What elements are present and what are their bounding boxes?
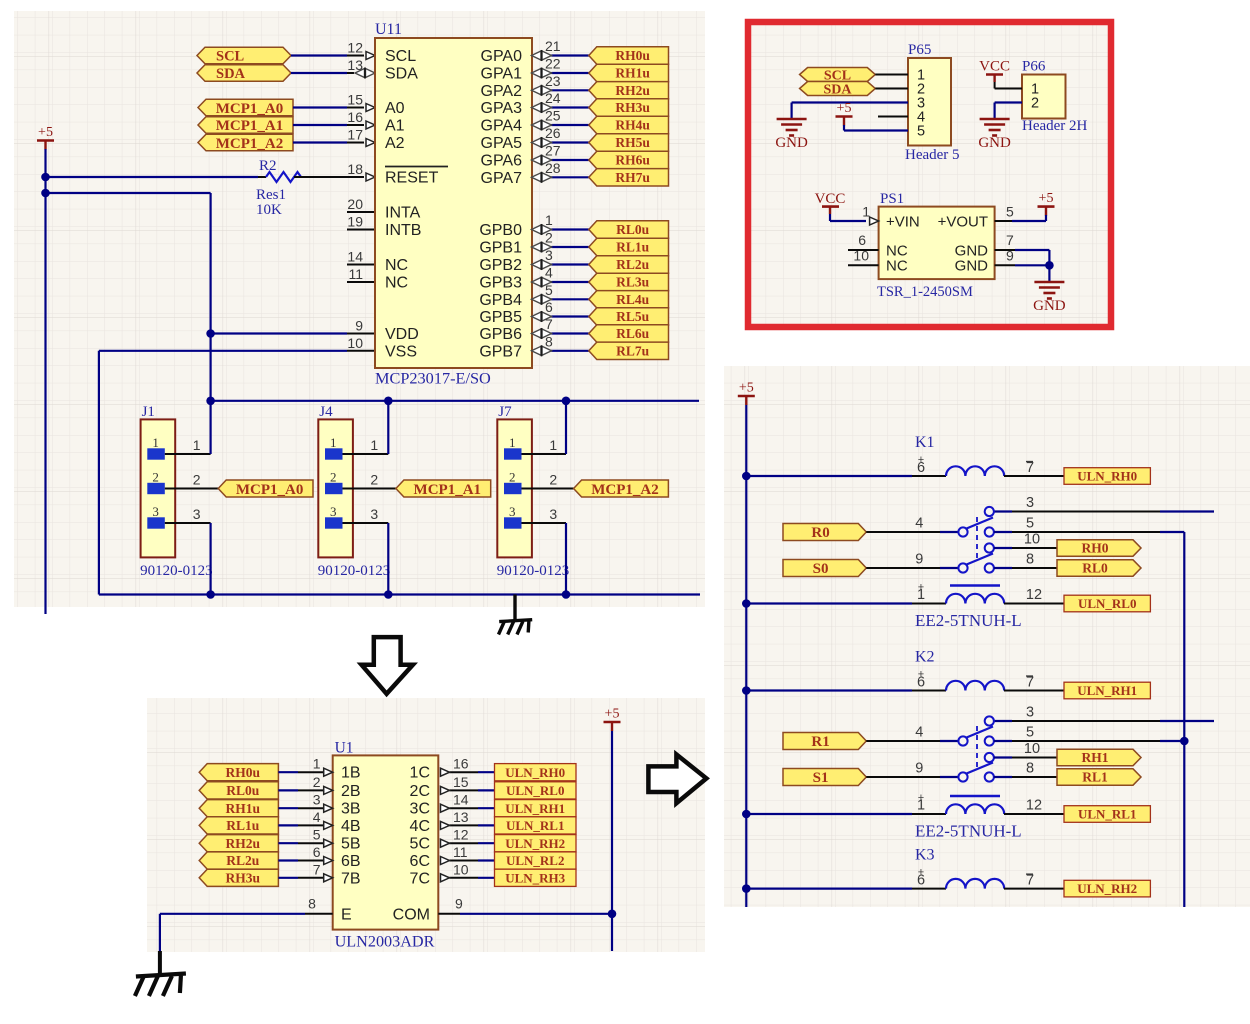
svg-text:INTA: INTA	[385, 205, 421, 222]
wire PS1 GND pin9	[995, 264, 1015, 266]
wire J7 pin1 to +5 rail	[522, 453, 567, 455]
port MCP1_A0	[198, 99, 293, 116]
wire +5 relay rail vertical	[745, 405, 747, 907]
svg-text:GPB1: GPB1	[479, 240, 522, 257]
svg-text:3B: 3B	[341, 801, 361, 818]
svg-text:ULN_RL2: ULN_RL2	[506, 853, 565, 868]
svg-text:NC: NC	[385, 275, 408, 292]
svg-text:R1: R1	[811, 734, 829, 750]
svg-text:27: 27	[545, 143, 561, 159]
wire S1 to K2 pin9	[866, 776, 940, 778]
port MCP1_A0	[218, 480, 313, 497]
svg-text:1: 1	[152, 435, 159, 450]
contact circle K2 pin8	[985, 772, 994, 781]
svg-text:ULN_RH0: ULN_RH0	[1077, 469, 1137, 484]
svg-text:13: 13	[453, 809, 469, 825]
port RH0u (U1 input)	[199, 764, 278, 781]
svg-text:GPB2: GPB2	[479, 257, 522, 274]
wire U1 COM pin9 to +5	[438, 913, 460, 915]
svg-text:2: 2	[370, 472, 378, 488]
svg-text:ULN_RH1: ULN_RH1	[1077, 683, 1137, 698]
svg-text:8: 8	[545, 333, 553, 349]
svg-text:10: 10	[1024, 532, 1040, 548]
svg-text:GPA6: GPA6	[481, 153, 523, 170]
svg-text:11: 11	[348, 266, 363, 282]
junction +5 rail K3 coil	[742, 884, 751, 893]
svg-text:RH2u: RH2u	[615, 83, 650, 98]
wire U1 pin 15 to port ULN_RL0	[450, 789, 479, 791]
svg-text:RH1: RH1	[1082, 750, 1109, 765]
port RL0	[1057, 560, 1141, 576]
pin stub NC pin 14	[347, 264, 375, 266]
svg-text:3: 3	[549, 506, 557, 522]
svg-text:12: 12	[1026, 798, 1042, 814]
svg-text:4C: 4C	[410, 818, 430, 835]
port SCL	[197, 47, 291, 64]
wire R0 to K1 pin4	[866, 531, 940, 533]
switch blade K2 lower	[967, 763, 994, 774]
svg-text:RH0u: RH0u	[615, 48, 650, 63]
svg-text:P66: P66	[1022, 59, 1046, 75]
junction J1 pin3 rail	[206, 590, 215, 599]
svg-text:16: 16	[347, 109, 363, 125]
svg-text:GPB4: GPB4	[479, 292, 522, 309]
wire VDD branch horizontal y=193	[46, 192, 211, 194]
svg-text:GND: GND	[1033, 298, 1066, 314]
wire K1 pin3	[994, 510, 1012, 512]
wire +5 to K1 coil pin1	[746, 602, 912, 604]
port RL4u	[589, 291, 669, 308]
svg-text:RH6u: RH6u	[615, 153, 650, 168]
svg-text:+: +	[918, 792, 924, 804]
port ULN_RH2	[1064, 880, 1150, 897]
pin arrow RESET pin 18	[366, 173, 375, 181]
svg-text:4: 4	[313, 809, 321, 825]
svg-text:RL1: RL1	[1082, 770, 1108, 785]
contact circle K2 pin9	[958, 772, 967, 781]
contact circle K1 pin10	[985, 543, 994, 552]
svg-text:18: 18	[347, 161, 363, 177]
svg-text:12: 12	[1026, 587, 1042, 603]
svg-text:9: 9	[915, 761, 923, 777]
pin stub NC pin 11	[347, 281, 375, 283]
port R1	[783, 733, 866, 750]
svg-text:R2: R2	[259, 158, 277, 174]
wire right bus vertical x=1184.3	[1183, 532, 1185, 907]
svg-text:MCP23017-E/SO: MCP23017-E/SO	[375, 369, 491, 388]
svg-text:GPA7: GPA7	[481, 170, 523, 187]
wire J7 pin3 to ground rail	[522, 522, 567, 524]
wire SCL to P65 pin1	[875, 74, 908, 76]
wire +5 to K1 coil pin6	[746, 475, 912, 477]
svg-text:SCL: SCL	[216, 49, 245, 65]
svg-text:ULN_RL1: ULN_RL1	[506, 818, 565, 833]
svg-text:9: 9	[1006, 248, 1014, 264]
port ULN_RL1	[1064, 806, 1150, 823]
svg-text:5: 5	[313, 827, 321, 843]
svg-text:SDA: SDA	[216, 66, 246, 82]
svg-text:8: 8	[1026, 761, 1034, 777]
svg-text:+5: +5	[1039, 191, 1054, 206]
wire VSS pin 10 to ground rail	[347, 350, 375, 352]
svg-text:15: 15	[347, 92, 363, 108]
svg-text:1: 1	[193, 437, 201, 453]
svg-text:11: 11	[453, 844, 468, 860]
wire K2 pin5 to right bus	[994, 740, 1012, 742]
svg-text:ULN_RH2: ULN_RH2	[505, 836, 565, 851]
wire GND vertical (PS1)	[1048, 250, 1050, 281]
wire GPA6 pin 27 to port RH6u	[532, 159, 552, 161]
svg-text:+: +	[918, 669, 924, 681]
wire SDA to U11 pin 13	[291, 72, 347, 74]
svg-text:RH0: RH0	[1082, 541, 1109, 556]
wire K2 pin3	[994, 720, 1012, 722]
svg-text:SDA: SDA	[823, 82, 852, 97]
svg-text:14: 14	[453, 792, 469, 808]
wire GPA3 pin 24 to port RH3u	[532, 107, 552, 109]
svg-text:7: 7	[313, 861, 321, 877]
svg-text:3: 3	[152, 504, 159, 519]
svg-text:7: 7	[1026, 873, 1034, 889]
svg-text:13: 13	[347, 57, 363, 73]
wire RH2u to U1 pin 5	[278, 842, 298, 844]
relay K1 coil pins 6-7	[946, 466, 1004, 476]
ground GND (P65)	[777, 118, 807, 121]
IC U1 ULN2003ADR body	[333, 755, 439, 929]
svg-text:7: 7	[1026, 675, 1034, 691]
connector J1 90120-0123	[141, 419, 176, 557]
svg-text:U1: U1	[335, 740, 354, 757]
port ULN_RL0	[1064, 595, 1150, 612]
svg-text:ULN2003ADR: ULN2003ADR	[335, 933, 435, 951]
red highlight box border	[748, 22, 1111, 327]
svg-text:1C: 1C	[410, 765, 430, 782]
contact circle K1 pin5	[985, 527, 994, 536]
svg-text:Header 2H: Header 2H	[1022, 118, 1088, 134]
junction left rail / VDD branch	[41, 189, 50, 198]
wire +5 to K2 coil pin1	[746, 813, 912, 815]
svg-text:+: +	[918, 454, 924, 466]
junction VDD	[206, 329, 215, 338]
svg-text:GND: GND	[978, 135, 1011, 151]
svg-text:SCL: SCL	[385, 48, 416, 65]
connector P65 Header 5	[908, 58, 951, 146]
svg-text:RL0u: RL0u	[226, 783, 260, 798]
wire GPB6 pin 7 to port RL6u	[532, 333, 552, 335]
wire GPB1 pin 2 to port RL1u	[532, 246, 552, 248]
wire U1 pin 12 to port ULN_RH2	[450, 842, 479, 844]
svg-text:+VIN: +VIN	[886, 214, 920, 231]
svg-text:+5: +5	[837, 101, 852, 116]
svg-text:1: 1	[370, 437, 378, 453]
svg-text:90120-0123: 90120-0123	[318, 563, 391, 579]
junction +5 rail K1 coil	[742, 472, 751, 481]
switch blade K2 upper	[967, 727, 994, 738]
wire VDD pin 9 to +5 rail	[347, 333, 375, 335]
svg-text:A0: A0	[385, 100, 405, 117]
wire ground bottom rail y=594.5	[99, 593, 700, 595]
svg-text:9: 9	[355, 318, 363, 334]
wire MCP1_A2 to U11 pin 17	[293, 141, 347, 143]
switch blade K1 lower	[967, 554, 994, 565]
svg-text:3: 3	[509, 504, 516, 519]
port MCP1_A1	[198, 117, 293, 134]
red highlight box snippet background	[748, 22, 1111, 327]
svg-text:10: 10	[453, 861, 469, 877]
port RL6u	[589, 325, 669, 342]
port RL7u	[589, 342, 669, 359]
svg-text:GPB5: GPB5	[479, 309, 522, 326]
port ULN_RH1	[495, 800, 577, 817]
svg-text:15: 15	[453, 774, 469, 790]
port RH0	[1057, 540, 1141, 556]
svg-text:10: 10	[853, 248, 869, 264]
wire vertical left rail x=45 down	[44, 177, 46, 614]
port RH5u	[589, 134, 669, 151]
svg-text:GPA4: GPA4	[481, 118, 523, 135]
svg-text:MCP1_A2: MCP1_A2	[216, 136, 284, 152]
ground symbol below J7 rail	[513, 595, 516, 621]
wire K1 pin10 to RH0	[994, 547, 1012, 549]
svg-text:6B: 6B	[341, 853, 361, 870]
svg-text:VCC: VCC	[979, 59, 1010, 75]
svg-text:RL1u: RL1u	[616, 240, 650, 255]
port RL1u	[589, 238, 669, 255]
wire RL2u to U1 pin 6	[278, 859, 298, 861]
port RL0u (U1 input)	[199, 782, 278, 799]
wire R2 to U11 RESET pin 18	[347, 176, 364, 178]
svg-text:GPA1: GPA1	[481, 66, 523, 83]
svg-text:6C: 6C	[410, 853, 430, 870]
svg-text:A2: A2	[385, 135, 405, 152]
svg-text:+5: +5	[739, 381, 754, 396]
svg-text:4: 4	[915, 516, 923, 532]
svg-text:MCP1_A2: MCP1_A2	[591, 482, 659, 498]
port R0	[783, 524, 866, 541]
switch blade K1 upper	[967, 518, 994, 529]
svg-text:A1: A1	[385, 118, 405, 135]
svg-text:MCP1_A1: MCP1_A1	[216, 118, 284, 134]
svg-text:21: 21	[545, 38, 561, 54]
connector J7 90120-0123	[497, 419, 532, 557]
port RH6u	[589, 151, 669, 168]
wire R1 to K2 pin4	[866, 740, 940, 742]
wire U1 E pin8 to ground	[305, 913, 333, 915]
ground GND (P66)	[980, 118, 1010, 121]
svg-text:5: 5	[1006, 204, 1014, 220]
port MCP1_A1	[396, 480, 491, 497]
schematic snippet background top-left	[14, 11, 705, 607]
svg-text:MCP1_A0: MCP1_A0	[236, 482, 304, 498]
wire S0 to K1 pin9	[866, 567, 940, 569]
svg-text:RL0: RL0	[1082, 561, 1108, 576]
resistor R2	[258, 176, 266, 178]
svg-text:3: 3	[370, 506, 378, 522]
port RL1	[1057, 769, 1141, 785]
svg-text:14: 14	[347, 249, 363, 265]
junction right bus K2 pin5	[1180, 737, 1189, 746]
port ULN_RH2	[495, 835, 577, 852]
junction COM/+5	[608, 910, 617, 919]
port RH2u (U1 input)	[199, 835, 278, 852]
svg-text:Header 5: Header 5	[905, 147, 960, 163]
wire GPB5 pin 6 to port RL5u	[532, 316, 552, 318]
svg-text:ULN_RH2: ULN_RH2	[1077, 881, 1137, 896]
svg-text:3: 3	[193, 506, 201, 522]
svg-text:GPB7: GPB7	[479, 343, 522, 360]
port SDA	[197, 65, 291, 82]
svg-text:12: 12	[453, 827, 469, 843]
svg-text:5: 5	[545, 282, 553, 298]
IC U11 MCP23017-E/SO body	[375, 38, 532, 368]
pin stub P65 pin4	[878, 116, 908, 118]
svg-text:RL0u: RL0u	[616, 222, 650, 237]
svg-text:ULN_RL0: ULN_RL0	[506, 783, 565, 798]
svg-text:J4: J4	[319, 404, 333, 420]
svg-text:6: 6	[313, 844, 321, 860]
connector J4 90120-0123	[318, 419, 353, 557]
svg-text:10: 10	[347, 335, 363, 351]
wire U1 pin 14 to port ULN_RH1	[450, 807, 479, 809]
wire VCC to P66 pin1	[994, 82, 996, 89]
svg-text:INTB: INTB	[385, 222, 421, 239]
junction +5 rail K2 coil	[742, 686, 751, 695]
svg-text:MCP1_A1: MCP1_A1	[414, 482, 482, 498]
pin stub PS1 pin10	[848, 264, 879, 266]
port MCP1_A2	[574, 480, 669, 497]
wire RL0u to U1 pin 2	[278, 789, 298, 791]
svg-text:28: 28	[545, 160, 561, 176]
svg-text:1: 1	[509, 435, 516, 450]
svg-text:SDA: SDA	[385, 66, 418, 83]
wire J7 pin2 to port MCP1_A2	[522, 488, 575, 490]
junction +5/RESET	[41, 173, 50, 182]
wire GPA4 pin 25 to port RH4u	[532, 124, 552, 126]
port RL3u	[589, 273, 669, 290]
port ULN_RH1	[1064, 682, 1150, 699]
svg-text:2: 2	[545, 230, 553, 246]
svg-text:5: 5	[917, 124, 925, 140]
wire RH3u to U1 pin 7	[278, 877, 298, 879]
junction J1 pin1 rail	[206, 397, 215, 406]
wire VCC to PS1 +VIN pin1	[829, 214, 831, 221]
svg-text:ULN_RH0: ULN_RH0	[505, 765, 565, 780]
svg-text:4B: 4B	[341, 818, 361, 835]
port RH1u (U1 input)	[199, 800, 278, 817]
svg-text:GPA5: GPA5	[481, 135, 523, 152]
wire J4 pin3 to ground rail	[343, 522, 389, 524]
svg-text:2B: 2B	[341, 783, 361, 800]
svg-text:EE2-5TNUH-L: EE2-5TNUH-L	[915, 611, 1022, 630]
wire GPB7 pin 8 to port RL7u	[532, 350, 552, 352]
ground rake (U1)	[158, 951, 162, 974]
svg-text:+: +	[918, 582, 924, 594]
wire J1 pin2 to port MCP1_A0	[165, 488, 219, 490]
svg-text:TSR_1-2450SM: TSR_1-2450SM	[877, 284, 973, 300]
junction +5 rail K2 coil2	[742, 810, 751, 819]
wire VDD branch vertical x=210.6	[210, 193, 212, 401]
svg-text:MCP1_A0: MCP1_A0	[216, 101, 284, 117]
big hollow arrow right	[648, 754, 706, 803]
svg-text:7: 7	[545, 316, 553, 332]
svg-text:GPB3: GPB3	[479, 275, 522, 292]
mechanical link K2 (dashed)	[976, 726, 978, 770]
svg-text:24: 24	[545, 90, 561, 106]
svg-text:GPA2: GPA2	[481, 83, 523, 100]
wire J1 pin1 to +5 rail	[165, 453, 211, 455]
contact circle K2 pin10	[985, 753, 994, 762]
wire GPA5 pin 26 to port RH5u	[532, 142, 552, 144]
svg-text:2: 2	[152, 470, 159, 485]
svg-text:VCC: VCC	[815, 191, 846, 207]
contact circle K1 pin8	[985, 563, 994, 572]
svg-text:6: 6	[858, 232, 866, 248]
svg-text:RH1u: RH1u	[226, 801, 261, 816]
contact circle K2 pin4	[958, 736, 967, 745]
wire RL1u to U1 pin 4	[278, 824, 298, 826]
svg-text:+5: +5	[38, 125, 53, 140]
svg-text:RH0u: RH0u	[226, 765, 261, 780]
svg-text:9: 9	[455, 895, 463, 911]
junction J7 pin1 rail	[562, 397, 571, 406]
svg-text:1: 1	[549, 437, 557, 453]
contact circle K1 pin4	[958, 527, 967, 536]
wire +5 to K2 coil pin6	[746, 689, 912, 691]
wire +5 vertical (U1)	[611, 731, 613, 951]
wire +5 to K3 coil pin6	[746, 887, 912, 889]
wire PS1 GND pin7	[995, 249, 1015, 251]
svg-text:2: 2	[549, 472, 557, 488]
port ULN_RL2	[495, 852, 577, 869]
port RH3u	[589, 99, 669, 116]
svg-text:3: 3	[330, 504, 337, 519]
svg-text:ULN_RH3: ULN_RH3	[505, 870, 565, 885]
svg-text:RH4u: RH4u	[615, 118, 650, 133]
svg-text:12: 12	[347, 40, 363, 56]
svg-text:RL7u: RL7u	[616, 344, 650, 359]
wire +5 to P65 pin5	[843, 125, 845, 131]
svg-text:P65: P65	[908, 42, 931, 58]
svg-text:16: 16	[453, 756, 469, 772]
svg-text:GPB6: GPB6	[479, 326, 522, 343]
port ULN_RL1	[495, 817, 577, 834]
wire J1 pin3 to ground rail	[165, 522, 211, 524]
svg-text:1: 1	[545, 212, 553, 228]
svg-text:NC: NC	[385, 257, 408, 274]
wire P66 pin2 to GND	[995, 101, 1022, 103]
svg-text:7: 7	[1006, 232, 1014, 248]
IC PS1 TSR_1-2450SM body	[879, 207, 995, 280]
svg-text:GND: GND	[775, 135, 808, 151]
schematic snippet background right	[724, 366, 1250, 907]
port SDA (red box)	[800, 82, 876, 96]
wire +5 stem down to RESET net	[44, 149, 46, 177]
svg-text:1B: 1B	[341, 765, 361, 782]
svg-text:R0: R0	[811, 525, 829, 541]
pin stub PS1 pin6	[848, 249, 879, 251]
junction J4 pin1 rail	[384, 397, 393, 406]
svg-text:7: 7	[1026, 460, 1034, 476]
ground GND (PS1)	[1034, 281, 1064, 284]
port S1	[783, 769, 866, 786]
pin stub INTA pin 20	[347, 211, 375, 213]
svg-text:3: 3	[1026, 705, 1034, 721]
wire SDA to P65 pin2	[875, 88, 908, 90]
wire GPA7 pin 28 to port RH7u	[532, 176, 552, 178]
wire GPB2 pin 3 to port RL2u	[532, 264, 552, 266]
wire J4 pin2 to port MCP1_A1	[343, 488, 397, 490]
svg-text:RH2u: RH2u	[226, 836, 261, 851]
